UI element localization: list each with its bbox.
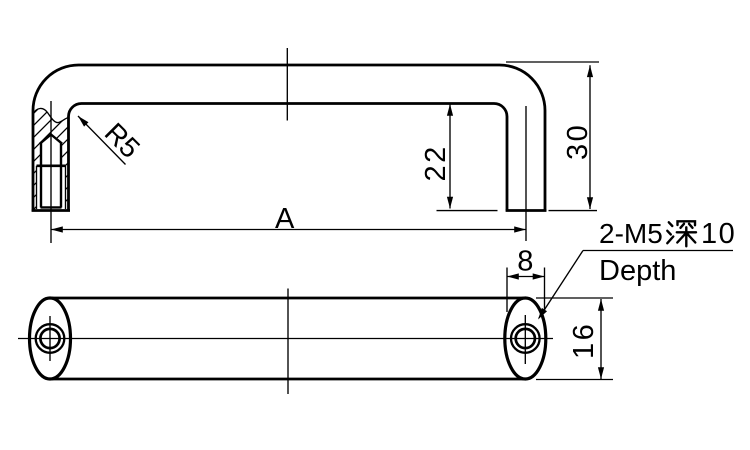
svg-text:22: 22 <box>420 144 452 181</box>
svg-text:2-M5: 2-M5 <box>599 218 663 249</box>
svg-text:10: 10 <box>701 218 736 250</box>
svg-text:16: 16 <box>568 322 600 359</box>
svg-text:30: 30 <box>562 123 594 160</box>
svg-text:8: 8 <box>517 246 533 278</box>
svg-text:Depth: Depth <box>599 255 676 287</box>
svg-text:A: A <box>275 203 295 235</box>
